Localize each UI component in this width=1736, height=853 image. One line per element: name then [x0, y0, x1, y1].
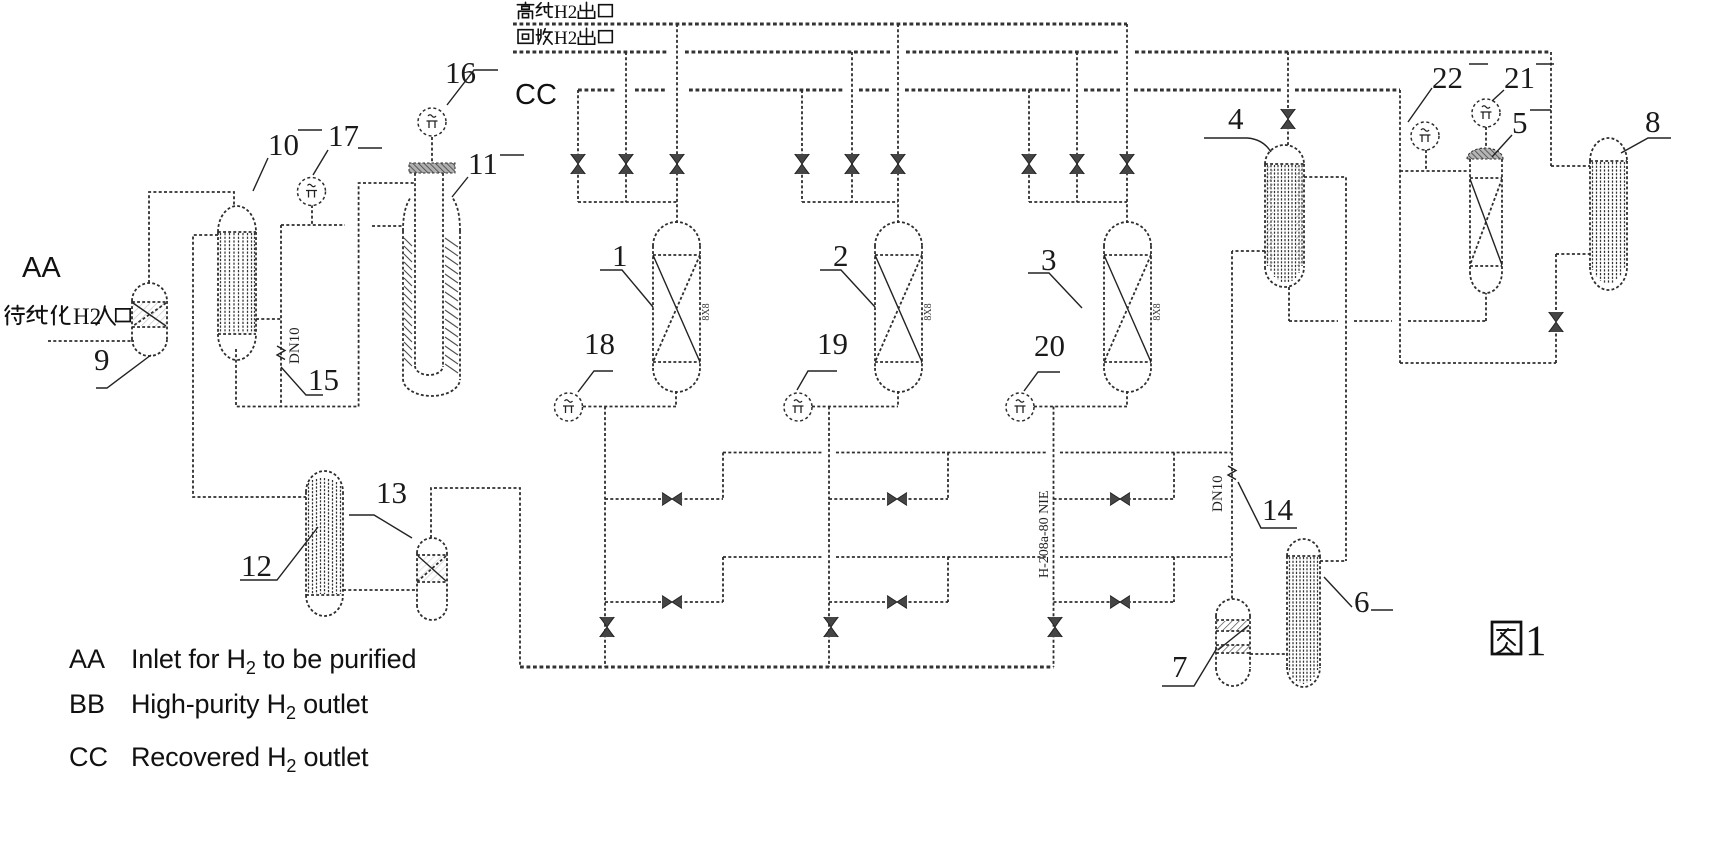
wire header CC [578, 89, 1400, 92]
wire vessel8 drain return [1400, 254, 1590, 363]
valve equalization lower g2 [887, 596, 907, 609]
vessel 7 separator [1216, 599, 1250, 686]
label 11 [452, 146, 524, 197]
wire equalization upper valve line g1 [605, 498, 723, 500]
label 8 [1621, 104, 1671, 153]
label 13 [349, 475, 412, 538]
label 1 [600, 238, 653, 307]
wire drop 2c from header1 to vessel 2 [897, 24, 899, 223]
legend row BB [69, 689, 369, 723]
svg-text:High-purity H2 outlet: High-purity H2 outlet [131, 689, 369, 723]
label 17 [313, 118, 382, 175]
wire drain V1 [604, 407, 606, 668]
valve equalization lower g1 [662, 596, 682, 609]
wire DN10 vertical to vessel7 [1231, 251, 1233, 599]
label 7 [1162, 648, 1217, 686]
label 9 [94, 342, 151, 388]
vessel 6 heat exchanger [1287, 539, 1320, 687]
vessel 1 adsorber [653, 222, 712, 392]
vessel 11 cold trap [403, 163, 460, 396]
svg-text:17: 17 [328, 118, 359, 153]
wire equalization lower riser g2 [947, 557, 949, 602]
wire vessel5 feed line [1400, 150, 1468, 171]
svg-text:DN10: DN10 [1210, 475, 1226, 512]
label 22 [1408, 60, 1488, 122]
wire drain V3 [1053, 407, 1055, 668]
vessel 9 adsorber [132, 283, 167, 356]
valve on vessel8 drain [1548, 312, 1564, 332]
svg-text:8: 8 [1645, 104, 1661, 139]
wire vessel4 right nozzle down to vessel6 [1304, 177, 1346, 561]
valve equalization upper g1 [662, 493, 682, 506]
svg-text:8X8: 8X8 [923, 303, 934, 320]
wire header2 leg to vessel8 [1551, 52, 1590, 166]
valve on drop 3b [1069, 154, 1085, 174]
wire header recovered H2 outlet [513, 51, 1551, 54]
wire vessel10 left nozzle to vessel12 [193, 235, 306, 497]
wire vessel4 left nozzle to DN10 line [1232, 250, 1265, 252]
wire equalization upper riser g3 [1173, 453, 1175, 500]
svg-text:18: 18 [584, 326, 615, 361]
vessel 2 adsorber [875, 222, 934, 392]
vessel 8 heat exchanger [1590, 138, 1627, 290]
svg-text:H2: H2 [554, 2, 577, 23]
wire equalization upper horizontal [723, 452, 1231, 454]
valve on drop 2c [890, 154, 906, 174]
wire vessel12 to vessel13 [343, 589, 417, 591]
label 6 [1324, 577, 1393, 619]
wire equalization upper valve line g2 [829, 498, 948, 500]
svg-text:15: 15 [308, 362, 339, 397]
valve equalization lower g3 [1110, 596, 1130, 609]
svg-text:6: 6 [1354, 584, 1370, 619]
svg-text:3: 3 [1041, 242, 1057, 277]
wire equalization lower valve line g1 [605, 601, 723, 603]
valve equalization upper g3 [1110, 493, 1130, 506]
wire drop 3a from CC [1028, 90, 1030, 202]
svg-text:CC: CC [69, 742, 108, 772]
wire equalization lower valve line g3 [1054, 601, 1175, 603]
svg-text:Inlet for H2 to be purified: Inlet for H2 to be purified [131, 644, 416, 678]
svg-text:Recovered H2 outlet: Recovered H2 outlet [131, 742, 369, 776]
wire drop 2a from CC [801, 90, 803, 202]
wire collector group2 [802, 201, 898, 203]
label 12 [240, 527, 318, 583]
legend row CC [69, 742, 369, 776]
valve on drop 1b [618, 154, 634, 174]
gauge 17 [298, 178, 326, 206]
valve equalization upper g2 [887, 493, 907, 506]
wire equalization upper riser g1 [722, 453, 724, 500]
wire CC leg down [1399, 90, 1401, 363]
wire equalization lower riser g3 [1173, 557, 1175, 602]
svg-text:AA: AA [22, 252, 61, 284]
wire equalization lower horizontal [723, 556, 1231, 558]
wire vessel6 to vessel7 [1250, 653, 1287, 655]
wire header high-purity H2 outlet [513, 23, 1127, 26]
svg-text:9: 9 [94, 342, 110, 377]
svg-text:H2: H2 [554, 28, 577, 49]
chinese text inlet for H2 to be purified [5, 304, 130, 329]
chinese text high-purity H2 outlet [517, 2, 612, 23]
valve on vessel4 feed [1280, 109, 1296, 129]
vessel 13 separator [417, 538, 447, 620]
svg-text:4: 4 [1228, 101, 1244, 136]
svg-text:H-208a-80 NIE: H-208a-80 NIE [1037, 491, 1052, 578]
svg-text:1: 1 [612, 238, 628, 273]
label 5 [1492, 105, 1551, 157]
wire drop 1b from header2 [625, 52, 627, 202]
valve on drop 1c [669, 154, 685, 174]
label 20 [1024, 328, 1065, 391]
svg-text:11: 11 [468, 146, 498, 181]
gauge 19 [784, 393, 812, 421]
svg-text:12: 12 [241, 548, 272, 583]
svg-text:BB: BB [69, 689, 105, 719]
wire vessel13 riser loop [431, 488, 520, 667]
wire equalization lower riser g1 [722, 557, 724, 602]
wire vessel10 bottom [236, 349, 359, 407]
svg-text:2: 2 [833, 238, 849, 273]
svg-text:21: 21 [1504, 60, 1535, 95]
gauge 18 [555, 393, 583, 421]
label 14 [1238, 482, 1297, 528]
gauge 21 [1472, 99, 1500, 127]
svg-text:8X8: 8X8 [1152, 303, 1163, 320]
wire gauge16 stem [431, 137, 433, 163]
valve on drop 2b [844, 154, 860, 174]
label 4 [1204, 101, 1271, 152]
wire vessel4 feed drop [1287, 52, 1289, 145]
svg-text:CC: CC [515, 79, 557, 111]
svg-text:20: 20 [1034, 328, 1065, 363]
valve on drop 1a [570, 154, 586, 174]
vessel 5 adsorber dryer [1467, 148, 1503, 293]
wire collector group3 [1029, 201, 1127, 203]
wire drop 2b from header2 [851, 52, 853, 202]
wire gauge line group1 [583, 391, 676, 407]
svg-text:1: 1 [1525, 618, 1547, 665]
label 18 [578, 326, 615, 392]
vessel 10 heat exchanger [218, 206, 256, 360]
wire collector group1 [578, 201, 677, 203]
valve on drain V3 [1047, 617, 1063, 637]
svg-text:5: 5 [1512, 105, 1528, 140]
valve on drop 2a [794, 154, 810, 174]
svg-text:AA: AA [69, 644, 105, 674]
svg-text:19: 19 [817, 326, 848, 361]
gauge 16 [418, 108, 446, 136]
wire drain V2 [828, 407, 830, 668]
vessel 3 adsorber [1104, 222, 1163, 392]
svg-text:10: 10 [268, 127, 299, 162]
wire drop 3c from header1 to vessel 3 [1126, 24, 1128, 223]
wire equalization upper riser g2 [947, 453, 949, 500]
vessel 4 heat exchanger [1265, 145, 1304, 287]
wire bottom collector [520, 666, 1054, 669]
wire gauge17 branch [256, 205, 403, 407]
wire drop 1a from CC [577, 90, 579, 202]
wire AA inlet [48, 340, 134, 342]
wire vessel4 bottom to vessel5 bottom [1289, 287, 1486, 321]
wire gauge line group2 [812, 391, 898, 407]
wire riser to vessel11 [359, 183, 415, 407]
label 16 [445, 55, 498, 105]
gauge 20 [1006, 393, 1034, 421]
chinese text recovered H2 outlet [518, 28, 612, 49]
svg-text:22: 22 [1432, 60, 1463, 95]
svg-text:13: 13 [376, 475, 407, 510]
svg-text:7: 7 [1172, 649, 1188, 684]
wire vessel9 top to vessel10 [149, 192, 234, 283]
gauge 22 [1411, 122, 1439, 150]
label 10 [253, 127, 322, 191]
label 3 [1028, 242, 1082, 308]
label 21 [1492, 60, 1554, 101]
svg-text:14: 14 [1262, 492, 1294, 527]
wire gauge21 stem [1485, 127, 1487, 149]
valve on drop 3a [1021, 154, 1037, 174]
wire drop 1c from header1 to vessel 1 [676, 24, 678, 223]
label 19 [797, 326, 848, 390]
DN10 reducer mark 15 [277, 346, 285, 360]
label 2 [820, 238, 875, 307]
wire equalization upper valve line g3 [1054, 498, 1175, 500]
vessel 12 heat exchanger [306, 471, 343, 616]
DN10 reducer mark 14 [1228, 466, 1236, 480]
valve on drain V2 [823, 617, 839, 637]
legend row AA [69, 644, 416, 678]
figure label tu 1 [1492, 618, 1547, 665]
valve on drain V1 [599, 617, 615, 637]
wire drop 3b from header2 [1076, 52, 1078, 202]
svg-text:8X8: 8X8 [701, 303, 712, 320]
label 15 [281, 362, 339, 397]
wire gauge line group3 [1034, 391, 1127, 407]
wire equalization lower valve line g2 [829, 601, 948, 603]
valve on drop 3c [1119, 154, 1135, 174]
svg-text:DN10: DN10 [287, 327, 303, 364]
